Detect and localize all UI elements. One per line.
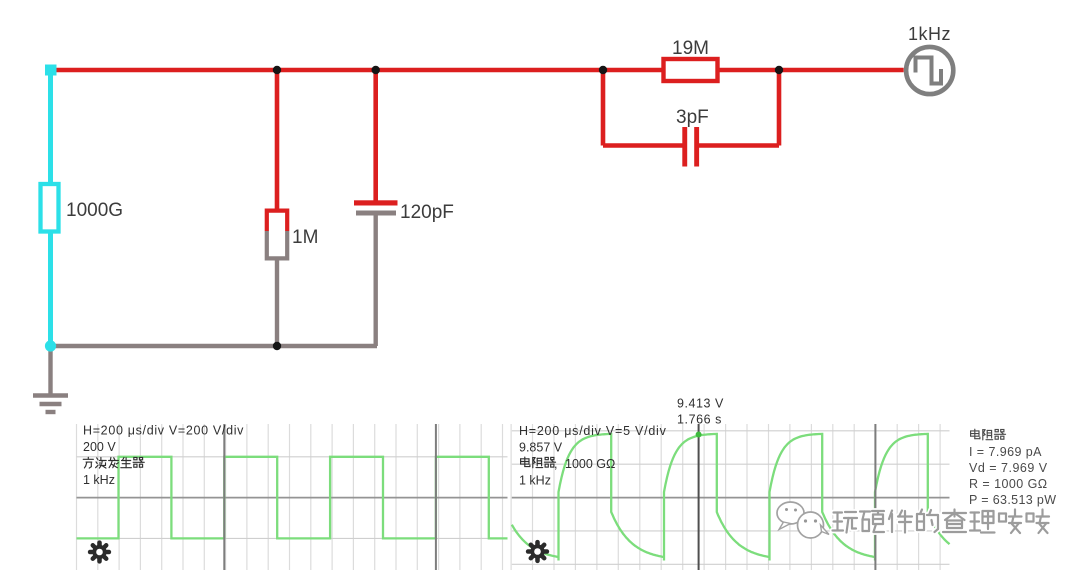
svg-text:9.857 V: 9.857 V	[519, 441, 563, 455]
scope 1 major gridlines	[223, 424, 225, 570]
scope 2 major gridline	[874, 424, 876, 570]
node A (top rail / R2)	[273, 66, 281, 74]
scope 2 grid	[511, 424, 949, 570]
scope 1 gear icon	[92, 545, 106, 559]
svg-text:1kHz: 1kHz	[908, 24, 951, 44]
wire C1 upper (red)	[373, 70, 378, 203]
svg-text:120pF: 120pF	[400, 202, 454, 223]
scope 1 text square-wave-generator (CJK)	[87, 457, 89, 459]
wire left rail upper (cyan)	[48, 70, 53, 183]
svg-text:Vd = 7.969 V: Vd = 7.969 V	[969, 461, 1048, 475]
scope 2 cursor line	[698, 424, 700, 570]
wire top rail (red)	[51, 68, 904, 73]
svg-text:1M: 1M	[292, 227, 318, 248]
svg-text:H=200 μs/div V=5 V/div: H=200 μs/div V=5 V/div	[519, 424, 667, 438]
resistor R3 19M (red)	[664, 59, 718, 81]
wire parallel branch bottom left (red)	[603, 143, 684, 148]
svg-text:I = 7.969 pA: I = 7.969 pA	[969, 445, 1042, 459]
scope 1 grid	[77, 424, 508, 570]
capacitor C2 3pF	[682, 127, 687, 167]
svg-text:1 kHz: 1 kHz	[519, 474, 551, 488]
watermark logo chat bubbles	[777, 502, 804, 524]
scope 2 text resistor 1000 GOhm (CJK)	[524, 457, 526, 464]
svg-text:3pF: 3pF	[676, 107, 709, 128]
scope 2 gear icon	[530, 544, 544, 558]
svg-text:1000G: 1000G	[66, 200, 123, 221]
wire parallel branch right vertical (red)	[777, 70, 782, 146]
wire left rail lower (cyan)	[48, 233, 53, 347]
wire parallel branch left vertical (red)	[601, 70, 606, 146]
wire ground stem	[48, 346, 52, 394]
resistor R2 1M (red/gray)	[267, 209, 288, 261]
node B (top rail / C1)	[372, 66, 380, 74]
svg-text:19M: 19M	[672, 38, 709, 59]
wire parallel branch bottom right (red)	[697, 143, 779, 148]
watermark text (CJK)	[834, 510, 843, 516]
svg-text:H=200 μs/div V=200 V/div: H=200 μs/div V=200 V/div	[83, 424, 244, 438]
node bottom-left (cyan junction)	[45, 340, 56, 351]
svg-text:1.766 s: 1.766 s	[677, 413, 722, 427]
wire R2 lower (gray)	[275, 261, 279, 347]
scope 2 cursor dot	[696, 432, 702, 438]
node top-left (cyan terminal)	[45, 65, 57, 76]
svg-text:200 V: 200 V	[83, 440, 116, 454]
node D (right of 19M)	[775, 66, 783, 74]
wire C1 lower (gray)	[374, 216, 378, 347]
svg-text:1000 GΩ: 1000 GΩ	[565, 457, 615, 471]
capacitor C1 120pF	[354, 200, 398, 205]
resistor R1 1000G (cyan)	[41, 184, 59, 232]
svg-text:,: ,	[554, 457, 557, 471]
svg-text:9.413 V: 9.413 V	[677, 397, 724, 411]
scope 1 square wave trace	[77, 457, 508, 539]
node junction bottom rail	[273, 342, 281, 350]
readout title resistor (CJK)	[974, 429, 976, 436]
svg-text:1 kHz: 1 kHz	[83, 473, 115, 487]
scope 2 RC trace	[512, 434, 950, 561]
node C (left of 19M)	[599, 66, 607, 74]
svg-text:R = 1000 GΩ: R = 1000 GΩ	[969, 477, 1048, 491]
wire bottom rail (gray)	[51, 344, 378, 348]
ground symbol	[33, 393, 68, 397]
wire branch R2 upper (red)	[275, 70, 280, 210]
source V1 square-wave generator	[906, 47, 953, 94]
svg-text:P = 63.513 pW: P = 63.513 pW	[969, 493, 1056, 507]
